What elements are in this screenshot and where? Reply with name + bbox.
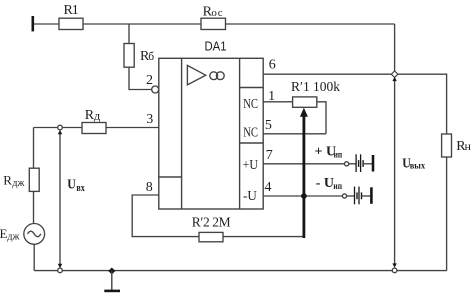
- svg-text:д: д: [94, 111, 101, 123]
- svg-text:+U: +U: [243, 158, 258, 173]
- node input junction (open circle): [58, 125, 63, 130]
- node ground junction dot: [108, 267, 115, 274]
- wire pin 6 output to node A: [263, 73, 394, 75]
- svg-text:R′1 100k: R′1 100k: [291, 79, 340, 94]
- wire load Rn to bottom bus: [446, 157, 448, 271]
- resistor Roc (feedback): [201, 4, 226, 29]
- svg-text:NC: NC: [243, 126, 258, 141]
- wire pin 7 to positive supply: [263, 163, 344, 165]
- svg-text:-U: -U: [243, 189, 257, 204]
- svg-text:7: 7: [266, 148, 273, 163]
- ground: [104, 271, 120, 291]
- svg-text:DA1: DA1: [205, 39, 227, 54]
- svg-text:- U: - U: [316, 176, 334, 191]
- wire top bus: input terminal through R1 and Roc to output column: [33, 23, 395, 25]
- wire Edzh source to bottom bus: [33, 244, 35, 270]
- svg-text:ип: ип: [334, 150, 343, 160]
- svg-text:б: б: [148, 51, 154, 63]
- wire source branch down to Rdzh: [33, 128, 35, 169]
- wire from top bus down through R6 to inverting pin 2: [129, 24, 152, 90]
- svg-text:1: 1: [268, 89, 275, 104]
- svg-text:R: R: [3, 173, 12, 188]
- svg-text:дж: дж: [12, 178, 24, 189]
- op-amp U1 DA1 body: [159, 58, 263, 209]
- svg-text:вых: вых: [410, 161, 426, 171]
- terminal circle of -Uip: [342, 194, 346, 198]
- op-amp triangle symbol: [187, 65, 205, 85]
- resistor Rd: [82, 108, 106, 133]
- svg-text:3: 3: [146, 112, 153, 127]
- wire Rdzh to Edzh source: [33, 191, 35, 223]
- wire pin 5 stub: [263, 133, 326, 135]
- svg-text:U: U: [67, 177, 76, 192]
- svg-text:5: 5: [265, 118, 272, 133]
- wiper arrow of R'1 (thick line down to R'2 net): [300, 108, 308, 238]
- svg-text:вх: вх: [76, 183, 84, 194]
- svg-text:2: 2: [146, 73, 153, 88]
- battery GB1 +Uip: [349, 154, 373, 172]
- resistor Rdzh (generator internal resistance): [3, 168, 39, 191]
- source Edzh (sine generator): [0, 224, 45, 245]
- wire pin 8 feedback loop through R'2: [132, 195, 304, 237]
- svg-text:Е: Е: [0, 226, 8, 241]
- input terminal bar: [31, 16, 34, 31]
- wire bottom common bus: [34, 270, 446, 272]
- resistor R6 (Rb): [124, 44, 154, 68]
- Uvx input voltage arrow: [58, 130, 85, 268]
- svg-text:8: 8: [146, 180, 153, 195]
- op-amp infinity gain symbol: [210, 72, 224, 80]
- node A output junction (open diamond): [391, 71, 398, 78]
- node Uvx at bottom bus (open circle): [58, 268, 63, 273]
- wire output node A to load Rn: [395, 74, 447, 134]
- svg-text:н: н: [465, 139, 472, 153]
- potentiometer R'1 100k (offset null): [291, 79, 340, 107]
- svg-text:4: 4: [265, 180, 272, 195]
- resistor R'2 2M: [192, 215, 231, 242]
- svg-text:R′2 2М: R′2 2М: [192, 215, 231, 230]
- svg-text:R1: R1: [64, 3, 79, 18]
- terminal circle of +Uip: [345, 162, 349, 166]
- svg-text:ос: ос: [211, 7, 223, 19]
- wire potentiometer right terminal down: [317, 102, 326, 134]
- wire Roc down to output node A: [394, 24, 396, 74]
- Uvyx output voltage arrow: [392, 77, 425, 268]
- battery GB2 -Uip: [347, 187, 372, 205]
- wire pin 1 stub to potentiometer R'1: [263, 101, 292, 103]
- node junction dot wiper bus with pin 4 supply wire: [301, 193, 307, 199]
- svg-text:NC: NC: [243, 97, 258, 112]
- svg-text:ип: ип: [333, 182, 342, 192]
- resistor R1: [59, 3, 83, 29]
- wire input node through Rd to pin 3: [34, 127, 159, 129]
- svg-text:дж: дж: [7, 231, 19, 242]
- pin 2 inversion circle: [152, 86, 159, 93]
- wire pin 4 to negative supply: [263, 195, 342, 197]
- resistor Rn (load): [442, 134, 472, 157]
- node Uvyx at bottom bus (open circle): [392, 268, 397, 273]
- svg-text:6: 6: [269, 57, 276, 72]
